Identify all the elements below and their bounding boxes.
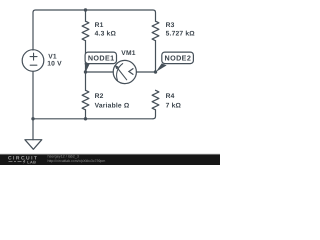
node NODE2 flag pointer: [156, 63, 167, 72]
svg-text:V1: V1: [48, 53, 57, 60]
voltmeter VM1 letter V (rotated): [129, 68, 134, 74]
node NODE1 flag pointer: [85, 63, 90, 72]
ground: [25, 140, 42, 150]
svg-text:Variable Ω: Variable Ω: [95, 103, 130, 110]
svg-text:NODE1: NODE1: [88, 53, 115, 62]
wire R2 top stub: [85, 72, 87, 90]
svg-text:LAB: LAB: [27, 160, 36, 164]
wire top rail: [33, 10, 156, 50]
wire ground lead: [32, 119, 34, 140]
svg-text:R2: R2: [95, 93, 104, 100]
svg-text:VM1: VM1: [121, 50, 135, 57]
node junction dot bottom left: [31, 117, 34, 120]
svg-text:R3: R3: [166, 22, 175, 29]
wire V1 bottom lead: [32, 71, 34, 118]
svg-text:10 V: 10 V: [47, 60, 62, 67]
resistor R4: [152, 90, 159, 110]
svg-text:R1: R1: [95, 22, 104, 29]
wire R1 top stub: [85, 10, 87, 21]
wire R3 bottom to bridge: [155, 41, 157, 72]
resistor R1: [82, 21, 89, 40]
wire bridge right: [136, 71, 155, 73]
resistor R3: [152, 21, 159, 40]
wire bottom rail: [33, 118, 153, 120]
voltmeter VM1 circle: [113, 60, 136, 83]
voltage source V1: [22, 50, 44, 72]
svg-text:NODE2: NODE2: [165, 53, 192, 62]
node junction dot NODE2: [154, 70, 157, 73]
svg-text:hsergey12 / lab2_3: hsergey12 / lab2_3: [48, 154, 79, 158]
node NODE1 flag box: [85, 52, 116, 64]
svg-text:http://circuitlab.com/c/pXkkx3: http://circuitlab.com/c/pXkkx3x739pm: [48, 159, 106, 163]
svg-text:4.3 kΩ: 4.3 kΩ: [95, 30, 117, 37]
V1 plus sign: [30, 53, 37, 60]
voltmeter VM1 needle: [117, 68, 126, 80]
node NODE2 flag box: [162, 52, 194, 64]
CircuitLab logo LAB row: [9, 160, 26, 164]
watermark bar: [0, 154, 220, 165]
wire R2 bottom stub: [85, 110, 87, 119]
resistor R2: [82, 90, 89, 110]
node junction dot bottom mid: [84, 117, 87, 120]
V1 minus sign: [30, 64, 37, 66]
svg-text:7 kΩ: 7 kΩ: [166, 103, 182, 110]
voltmeter VM1 needle arrowhead: [115, 65, 119, 69]
wire bridge left: [86, 71, 114, 73]
wire R1 bottom to bridge: [85, 41, 87, 72]
node junction dot top: [84, 8, 87, 11]
node junction dot NODE1: [84, 70, 87, 73]
wire R4 bottom stub: [153, 110, 156, 119]
voltmeter VM1 scale arc: [117, 64, 123, 81]
svg-text:R4: R4: [166, 93, 175, 100]
svg-text:5.727 kΩ: 5.727 kΩ: [166, 30, 196, 37]
